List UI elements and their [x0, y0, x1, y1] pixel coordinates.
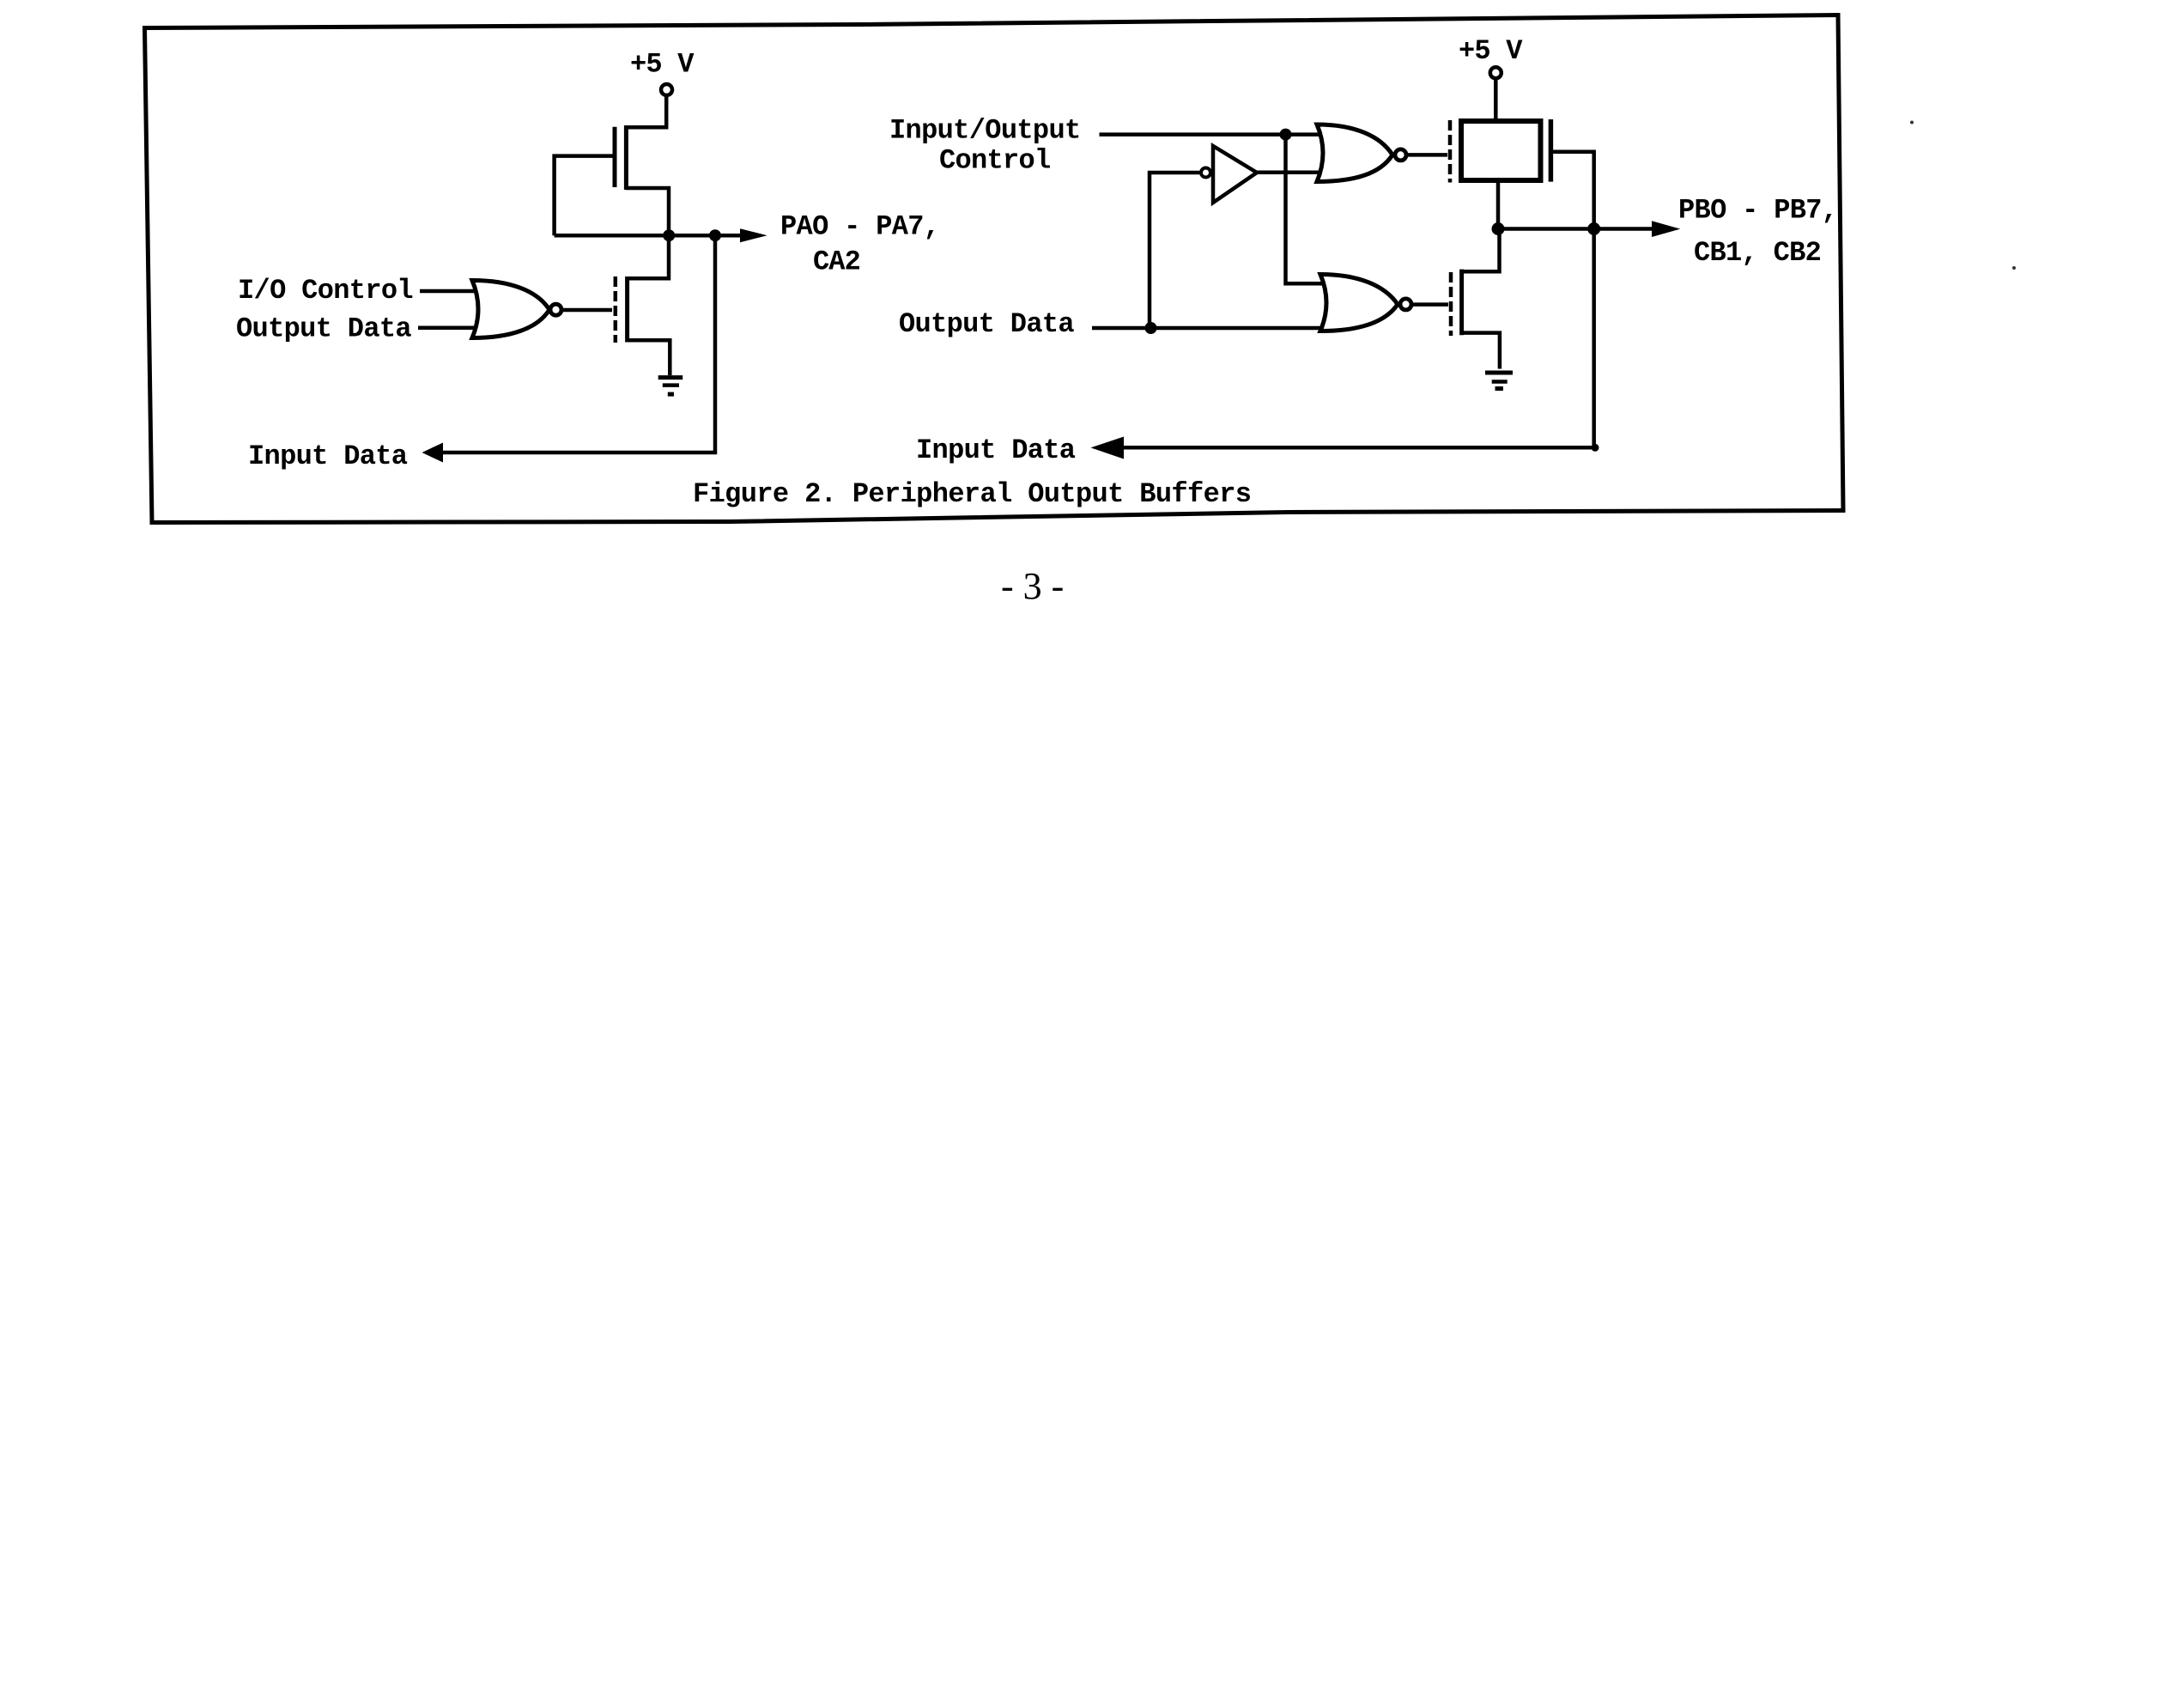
svg-text:Output Data: Output Data: [899, 308, 1075, 340]
svg-text:- 3 -: - 3 -: [1001, 565, 1064, 607]
svg-text:Input Data: Input Data: [248, 440, 408, 472]
svg-text:Input Data: Input Data: [916, 434, 1076, 466]
svg-text:+5 V: +5 V: [1459, 35, 1523, 67]
svg-text:PBO - PB7,: PBO - PB7,: [1678, 195, 1838, 227]
svg-text:CB1, CB2: CB1, CB2: [1694, 237, 1822, 269]
svg-text:I/O Control: I/O Control: [238, 275, 414, 307]
svg-text:PAO - PA7,: PAO - PA7,: [780, 211, 940, 243]
svg-text:Input/Output: Input/Output: [889, 115, 1081, 147]
svg-text:Figure 2. Peripheral Output Bu: Figure 2. Peripheral Output Buffers: [693, 478, 1252, 510]
svg-text:CA2: CA2: [813, 246, 861, 278]
svg-text:+5 V: +5 V: [630, 49, 695, 81]
svg-text:Output Data: Output Data: [236, 313, 412, 345]
svg-text:Control: Control: [939, 145, 1051, 177]
